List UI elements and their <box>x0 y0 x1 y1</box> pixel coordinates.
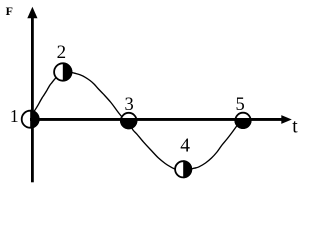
svg-text:2: 2 <box>57 42 67 63</box>
svg-text:5: 5 <box>236 95 245 115</box>
node 1 half-filled circle at origin <box>22 110 40 129</box>
svg-text:4: 4 <box>180 135 190 156</box>
svg-text:t: t <box>292 116 298 137</box>
wire sine curve through nodes 1-5 <box>31 72 242 171</box>
F axis vertical line <box>31 17 34 182</box>
svg-text:1: 1 <box>10 106 19 126</box>
t axis arrowhead <box>281 115 292 124</box>
node 5 half-filled circle on t-axis <box>234 113 251 129</box>
node 4 half-filled circle at trough <box>175 160 192 178</box>
node 3 half-filled circle on t-axis <box>120 113 137 130</box>
t axis horizontal line <box>30 118 282 121</box>
svg-text:3: 3 <box>125 95 134 115</box>
F axis arrowhead <box>27 7 37 18</box>
node 2 half-filled circle at peak <box>54 62 72 81</box>
svg-text:F: F <box>6 4 13 18</box>
